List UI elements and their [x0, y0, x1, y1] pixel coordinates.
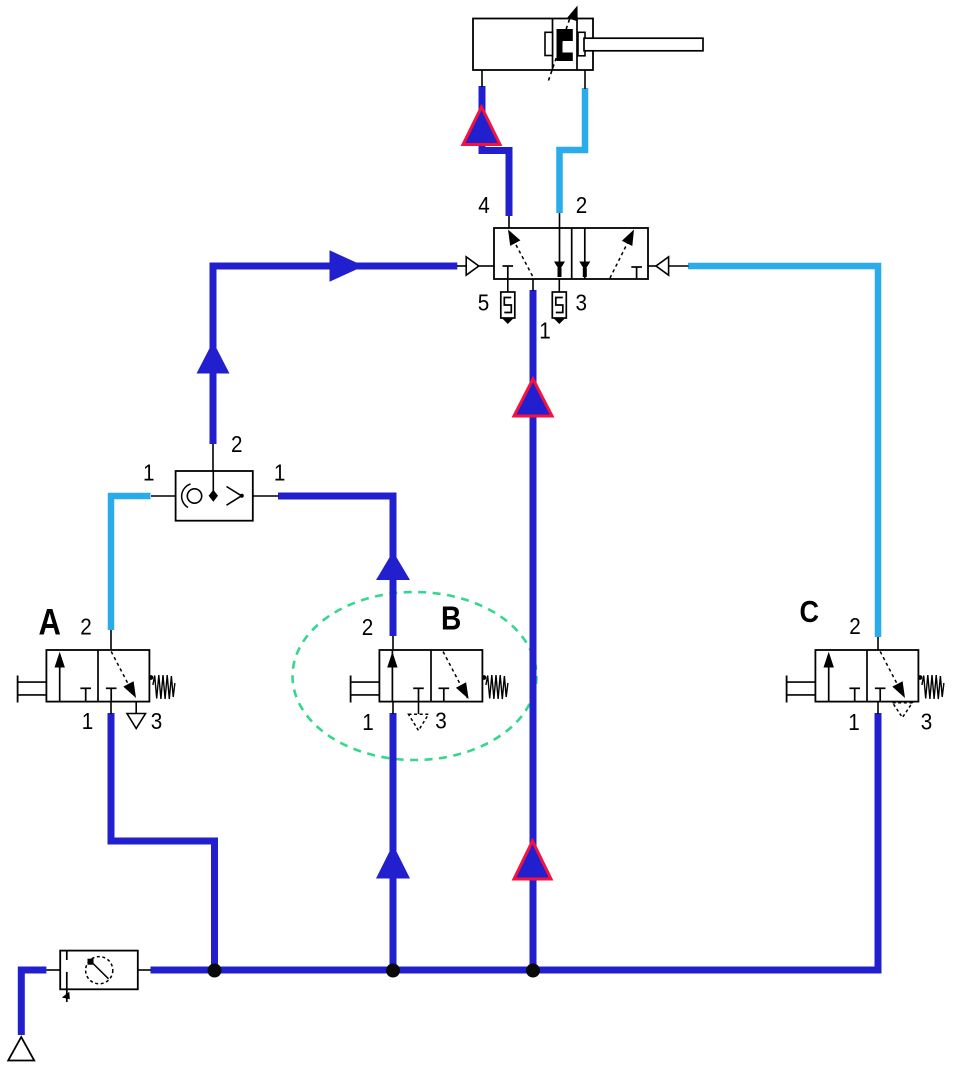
valve C 3/2-way pushbutton valve	[787, 650, 944, 703]
svg-text:2: 2	[80, 613, 92, 640]
flow arrow below valve B	[376, 845, 410, 879]
svg-text:3: 3	[151, 708, 163, 735]
svg-text:1: 1	[274, 459, 286, 486]
valve 1V1 left pilot (port 14)	[457, 257, 494, 275]
svg-text:2: 2	[231, 431, 243, 458]
wire valve A port 1 to supply manifold	[111, 713, 215, 967]
compressed air source 0Z	[8, 1037, 34, 1061]
stub	[392, 702, 394, 714]
on-off valve / service unit 0V	[46, 951, 151, 1002]
port stub 1	[532, 279, 534, 291]
svg-text:B: B	[441, 599, 461, 637]
junction node at manifold / valve A branch	[208, 964, 222, 978]
port stub 2	[559, 213, 561, 228]
svg-text:A: A	[39, 602, 61, 643]
svg-text:1: 1	[143, 459, 155, 486]
wire cylinder cap-end port to valve 1V1 port 4	[482, 86, 509, 216]
svg-text:1: 1	[539, 317, 551, 344]
valve A exhaust at port 3	[127, 702, 146, 729]
svg-text:4: 4	[478, 192, 490, 219]
junction node at manifold / valve B branch	[386, 964, 400, 978]
wire supply manifold / valve C port 1	[151, 713, 879, 970]
cylinder 1A1 (double-acting, adjustable cushioning)	[473, 6, 703, 90]
wire valve 1V1 port 1 to supply manifold	[530, 290, 537, 967]
wire shuttle valve port 1 (left) to valve A port 2	[111, 496, 151, 630]
wire cylinder rod-end port to valve 1V1 port 2	[560, 88, 586, 213]
svg-text:2: 2	[362, 614, 374, 641]
wire valve 1V1 port 4 pilot line from shuttle valve port 2	[213, 266, 457, 444]
svg-text:3: 3	[435, 707, 447, 734]
svg-text:2: 2	[849, 613, 861, 640]
svg-text:5: 5	[478, 289, 490, 316]
svg-text:1: 1	[82, 708, 94, 735]
flow arrow (red outlined) on wire to cylinder port 4	[463, 107, 500, 145]
wire valve 1V1 right pilot to valve C port 2	[688, 266, 878, 637]
svg-text:2: 2	[576, 192, 588, 219]
svg-text:3: 3	[921, 708, 933, 735]
svg-text:C: C	[800, 595, 819, 629]
valve C exhaust at port 3	[893, 703, 913, 718]
stub	[110, 630, 112, 650]
wire compressed-air source to service unit	[21, 970, 46, 1035]
flow arrow between shuttle valve and valve B	[376, 552, 410, 581]
valve A 3/2-way pushbutton valve	[18, 650, 175, 703]
junction node at manifold / valve 1V1 branch	[526, 964, 540, 978]
svg-text:1: 1	[362, 709, 374, 736]
wire valve B port 1 to supply manifold	[390, 713, 397, 967]
flow arrow on pilot wire, horizontal pointing right	[330, 250, 365, 281]
valve 1V1 right pilot (port 12)	[648, 257, 689, 275]
wire shuttle valve port 1 (right) to valve B port 2	[278, 496, 393, 636]
flow arrow (red outlined) on valve 1V1 port-1 line lower	[514, 841, 551, 879]
stub	[392, 636, 394, 650]
port stub 4	[508, 216, 510, 228]
svg-text:3: 3	[576, 289, 588, 316]
stub	[877, 702, 879, 714]
svg-text:1: 1	[848, 709, 860, 736]
stub	[110, 702, 112, 714]
highlight ellipse around valve B	[293, 592, 537, 760]
silencer on valve 1V1 port 5	[501, 279, 515, 324]
silencer on valve 1V1 port 3	[552, 279, 566, 324]
valve B 3/2-way pushbutton valve (actuated)	[351, 650, 508, 703]
valve B exhaust at port 3	[409, 702, 429, 731]
valve 1V1 5/2-way double pilot valve	[494, 228, 648, 279]
flow arrow (red outlined) on valve 1V1 port-1 line upper	[514, 379, 552, 416]
flow arrow on pilot wire, vertical at x=213	[197, 342, 230, 374]
shuttle valve (OR) 1V2	[151, 444, 279, 521]
stub	[877, 637, 879, 650]
